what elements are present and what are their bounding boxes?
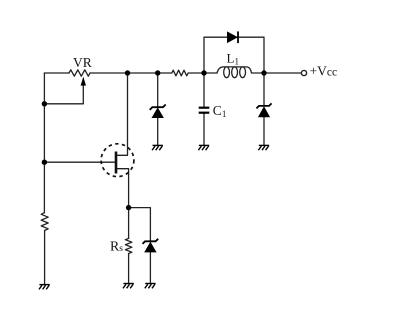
zener diode D2 (next to Rs) <box>144 242 156 253</box>
wire top rail middle segment <box>90 72 172 74</box>
ground (under C1) <box>198 145 209 150</box>
node junction (128.6,207.6) <box>126 205 131 210</box>
wire C1 branch top <box>203 73 205 107</box>
node +Vcc terminal (open circle) <box>301 70 306 75</box>
wire node to zener D2 <box>129 208 151 242</box>
ground (under D2) <box>145 284 156 289</box>
resistor R (series, on rail) <box>172 70 188 76</box>
node junction (44,103.8) <box>42 101 47 106</box>
wire left rail vertical (bottom part) <box>44 231 46 284</box>
wire left rail vertical (top part) <box>43 73 45 213</box>
wire zener D1 branch bottom <box>157 118 159 145</box>
wire zener D1 branch top <box>157 73 159 107</box>
potentiometer VR wiper arrow <box>81 77 86 86</box>
wire inductor to output terminal <box>252 72 302 74</box>
svg-text:C1: C1 <box>213 103 227 119</box>
svg-text:+Vcc: +Vcc <box>310 63 338 78</box>
inductor L1 <box>217 67 252 73</box>
svg-text:Rs: Rs <box>110 238 123 254</box>
wire drain riser <box>116 73 128 155</box>
wire zener D2 to ground <box>149 252 151 282</box>
wire gate line <box>44 161 116 163</box>
capacitor C1 <box>199 107 210 109</box>
wire source lead <box>116 169 129 208</box>
node junction (127.5,73) <box>125 70 130 75</box>
wire VR wiper horizontal <box>44 85 83 104</box>
wire Rs to ground <box>128 254 130 283</box>
wire diode D3 branch top <box>263 73 265 106</box>
ground (under D1) <box>152 145 163 150</box>
transistor Q1 channel bar <box>115 152 118 174</box>
node junction (264,73) <box>261 70 266 75</box>
zener diode D1 (under rail) <box>152 107 164 118</box>
wire rail to inductor <box>188 72 217 74</box>
wire diode branch (up-over-down loop) <box>204 37 264 73</box>
node junction (157.7,73) <box>155 70 160 75</box>
ground (left rail) <box>39 285 50 290</box>
node junction (204,73) <box>201 70 206 75</box>
transistor Q1 (dashed circle) <box>101 144 134 177</box>
wire top rail left segment <box>44 72 69 74</box>
diode D4 (top, across L1) <box>227 31 238 43</box>
resistor (left rail, unlabeled) <box>41 213 48 231</box>
wire C1 branch bottom <box>203 114 205 145</box>
zener diode D3 (right, under rail) <box>258 106 270 117</box>
ground (under Rs) <box>123 284 134 289</box>
resistor VR (potentiometer body) <box>69 70 90 76</box>
wire diode D3 branch bottom <box>263 117 265 144</box>
node junction (44,162.2) <box>42 160 47 165</box>
ground (under D3) <box>258 145 269 150</box>
svg-text:VR: VR <box>73 55 92 70</box>
wire source node to Rs <box>128 208 130 239</box>
resistor Rs body <box>125 238 132 253</box>
svg-text:L1: L1 <box>227 51 239 67</box>
